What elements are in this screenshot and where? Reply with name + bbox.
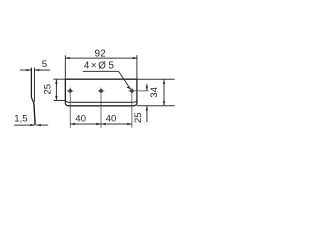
dimension 92: left arrowhead: [65, 57, 70, 59]
dimension 92: extension lines: [64, 55, 66, 79]
side view: rear surface line: [33, 68, 35, 102]
dimension 5 (side view top): extension stubs: [30, 68, 32, 73]
dimension 25 right: upper line with down arrowhead at hole center line: [146, 84, 148, 91]
svg-text:25: 25: [43, 84, 54, 95]
svg-text:40: 40: [106, 114, 117, 125]
center line H1 vertical: [69, 88, 71, 128]
svg-text:34: 34: [149, 86, 160, 97]
dimension 40 right: dimension line: [101, 123, 132, 125]
svg-text:4: 4: [84, 61, 90, 72]
dimension 1,5: right line with left-pointing arrowhead: [36, 124, 48, 126]
center line H2 vertical: [100, 88, 102, 128]
dimension 25 left: dimension line with inside arrowheads: [55, 79, 57, 100]
center line H3 horizontal, extended right as extension for dim 25 right: [129, 90, 149, 92]
svg-text:40: 40: [75, 114, 86, 125]
svg-text:×: ×: [91, 61, 97, 72]
hole H3 (right): [131, 90, 134, 93]
side view: lower sheet edge (thick, slight slant): [34, 104, 35, 126]
svg-text:92: 92: [95, 48, 107, 59]
side view: upper front surface line (thick) with jog: [31, 68, 34, 104]
dimension 40 left: arrowheads: [70, 123, 75, 125]
note 4 x dia 5: leader shelf: [83, 70, 119, 72]
center line H2 horizontal tick: [98, 90, 105, 92]
svg-text:1,5: 1,5: [14, 114, 27, 125]
svg-text:5: 5: [42, 59, 47, 70]
dimension 5: right line with left-pointing arrowhead: [35, 69, 51, 71]
dimension 40 right: arrowheads: [101, 123, 106, 125]
hole H2 (center): [100, 90, 103, 93]
svg-text:5: 5: [108, 61, 114, 72]
dimension 34: dimension line with inside arrowheads: [163, 79, 165, 106]
note 4 x dia 5: leader arrowhead: [127, 86, 131, 89]
bend line (front view inner line) with left extension for dim 25: [54, 100, 137, 102]
svg-text:25: 25: [133, 112, 144, 123]
dimension 92: dimension line: [65, 57, 137, 59]
plate outline (front view): [65, 79, 137, 106]
top edge extension line right (for dim 34): [137, 78, 175, 80]
center line H1 horizontal tick: [67, 90, 74, 92]
svg-text:Ø: Ø: [98, 61, 106, 72]
note 4 x dia 5: leader line to hole H3: [119, 71, 131, 89]
dimension 5: left line with right-pointing arrowhead: [20, 69, 31, 71]
dimension 40 left: dimension line: [70, 123, 101, 125]
center line H3 vertical: [131, 88, 133, 128]
dimension 25 right: lower line with up arrowhead at bottom edge: [146, 106, 148, 122]
dimension 1,5: left line with right-pointing arrowhead: [14, 124, 35, 126]
bottom edge extension line right (for dims 34 and 25): [137, 105, 175, 107]
top edge extension line left (for dim 25 left): [54, 78, 66, 80]
hole H1 (left): [69, 90, 72, 93]
dimension 92: right arrowhead: [133, 57, 138, 59]
